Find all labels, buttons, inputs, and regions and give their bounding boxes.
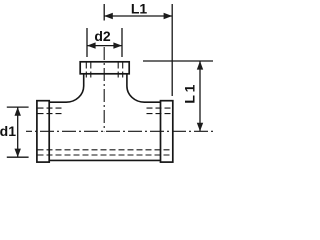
white background (0, 0, 218, 184)
tee body bottom line (49, 159, 160, 161)
tee body outline (top socket collar) (80, 62, 129, 74)
dimension d2: extension lines (87, 28, 122, 57)
hidden bore lines upper left (horizontal dashed) (38, 108, 63, 114)
horizontal centerline of run (dash-dot) (26, 130, 214, 132)
dimension L1 top: dimension line (104, 15, 172, 17)
left socket collar (37, 101, 49, 162)
dimension d1: extension lines (7, 107, 29, 157)
arrowhead L1 top right (164, 13, 173, 19)
hidden bore lines lower (horizontal dashed, full width) (38, 150, 173, 155)
dimension L1 right: dimension line (199, 61, 201, 131)
dimension d2: dimension line (87, 45, 122, 47)
dimension d1: dimension line (17, 107, 19, 157)
arrowhead d2 left (87, 42, 96, 48)
svg-text:d1: d1 (0, 123, 16, 139)
hidden bore lines upper right (horizontal dashed) (147, 108, 173, 114)
svg-text:L1: L1 (181, 82, 197, 104)
dimension L1 right: top extension line (143, 60, 213, 62)
hidden bore lines of top socket (vertical dashed) (86, 63, 122, 81)
tee body outline (top socket neck walls) (84, 74, 127, 86)
arrowhead L1 right down (197, 123, 203, 132)
svg-text:L1: L1 (131, 0, 148, 16)
dimension L1 top: left extension line (centerline extended) (103, 4, 105, 21)
arrowhead L1 right up (197, 61, 203, 70)
arrowhead d1 down (15, 149, 21, 158)
right socket collar (161, 101, 173, 162)
svg-text:d2: d2 (94, 28, 111, 44)
arrowhead d2 right (113, 42, 122, 48)
tee body fillet left (49, 86, 83, 102)
dimension L1 top: right extension line (171, 4, 173, 96)
arrowhead d1 up (15, 107, 21, 116)
tee body fillet right (127, 86, 161, 102)
vertical centerline of branch (dash-dot) (103, 47, 105, 131)
arrowhead L1 top left (104, 13, 113, 19)
